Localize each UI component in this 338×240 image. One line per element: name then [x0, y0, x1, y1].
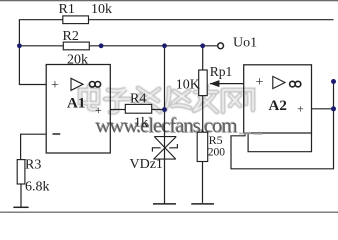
wire A1 inverting input to R3: [21, 134, 47, 159]
Rp1 wiper arrow: [210, 80, 220, 87]
svg-text:+: +: [256, 75, 264, 90]
node left: [17, 43, 22, 48]
svg-text:A1: A1: [67, 96, 85, 112]
A1 minus input: [53, 133, 61, 135]
svg-text:6.8k: 6.8k: [25, 180, 50, 195]
wire A2 feedback loop below box: [248, 133, 311, 152]
svg-text:200: 200: [208, 147, 226, 159]
op-amp A1: [46, 65, 110, 154]
svg-text:www.elecfans.com: www.elecfans.com: [95, 113, 237, 137]
A2 minus (faint): [254, 133, 263, 135]
resistor R3: [17, 160, 25, 184]
wire A1 output to R4: [110, 109, 125, 111]
svg-text:R3: R3: [25, 158, 41, 173]
resistor R5: [197, 132, 208, 161]
wire R3 to ground: [20, 184, 22, 207]
A2 triangle: [273, 76, 285, 88]
svg-text:R2: R2: [63, 29, 79, 44]
A1 infinity: [89, 82, 100, 88]
svg-text:R4: R4: [130, 92, 146, 107]
wire R5 to ground: [202, 162, 204, 203]
svg-text:VDz1: VDz1: [130, 157, 163, 172]
wire Rp1 bottom to R5: [202, 96, 204, 133]
svg-text:A2: A2: [269, 98, 287, 114]
wire R1 to right end: [89, 19, 334, 21]
svg-text:+: +: [297, 102, 304, 116]
ground under VDz1: [153, 203, 176, 205]
svg-text:10K: 10K: [176, 78, 200, 93]
A2 infinity: [290, 81, 301, 87]
zener VDz1: [152, 137, 177, 160]
ground under R5: [191, 203, 214, 205]
svg-text:20k: 20k: [67, 53, 88, 68]
node near A1: [99, 43, 104, 48]
wire top node down to Rp1: [202, 46, 204, 70]
node A2 output: [331, 106, 336, 111]
terminal Uo1: [218, 43, 224, 49]
svg-text:Rp1: Rp1: [210, 64, 233, 79]
watermark chars: [80, 86, 253, 112]
wire vertical net through VDz1: [164, 46, 166, 204]
node junction at R4 output: [162, 107, 167, 112]
wire Rp1 wiper line: [210, 83, 244, 85]
wire feedback from A2 output to left corner: [231, 82, 334, 169]
wire left branch to R1: [19, 20, 62, 85]
svg-text:R1: R1: [59, 2, 75, 17]
A1 triangle: [71, 78, 83, 90]
watermark url: [95, 113, 251, 138]
node above Rp1: [200, 43, 205, 48]
wire left node to R2: [19, 45, 63, 47]
wire A2 output: [312, 108, 334, 110]
svg-text:10k: 10k: [91, 2, 112, 17]
resistor R2: [63, 42, 89, 50]
node feedback top stub: [331, 79, 336, 84]
svg-text:Uo1: Uo1: [233, 36, 257, 51]
ground under R3: [13, 206, 28, 208]
node above VDz1: [162, 43, 167, 48]
svg-text:+: +: [51, 78, 59, 93]
potentiometer Rp1: [199, 70, 208, 96]
resistor R4: [125, 104, 151, 113]
wire R4 to node at x164.5: [152, 109, 165, 111]
op-amp A2: [244, 65, 312, 133]
resistor R1: [63, 16, 89, 24]
wire R2 to Uo1 terminal: [89, 45, 217, 47]
